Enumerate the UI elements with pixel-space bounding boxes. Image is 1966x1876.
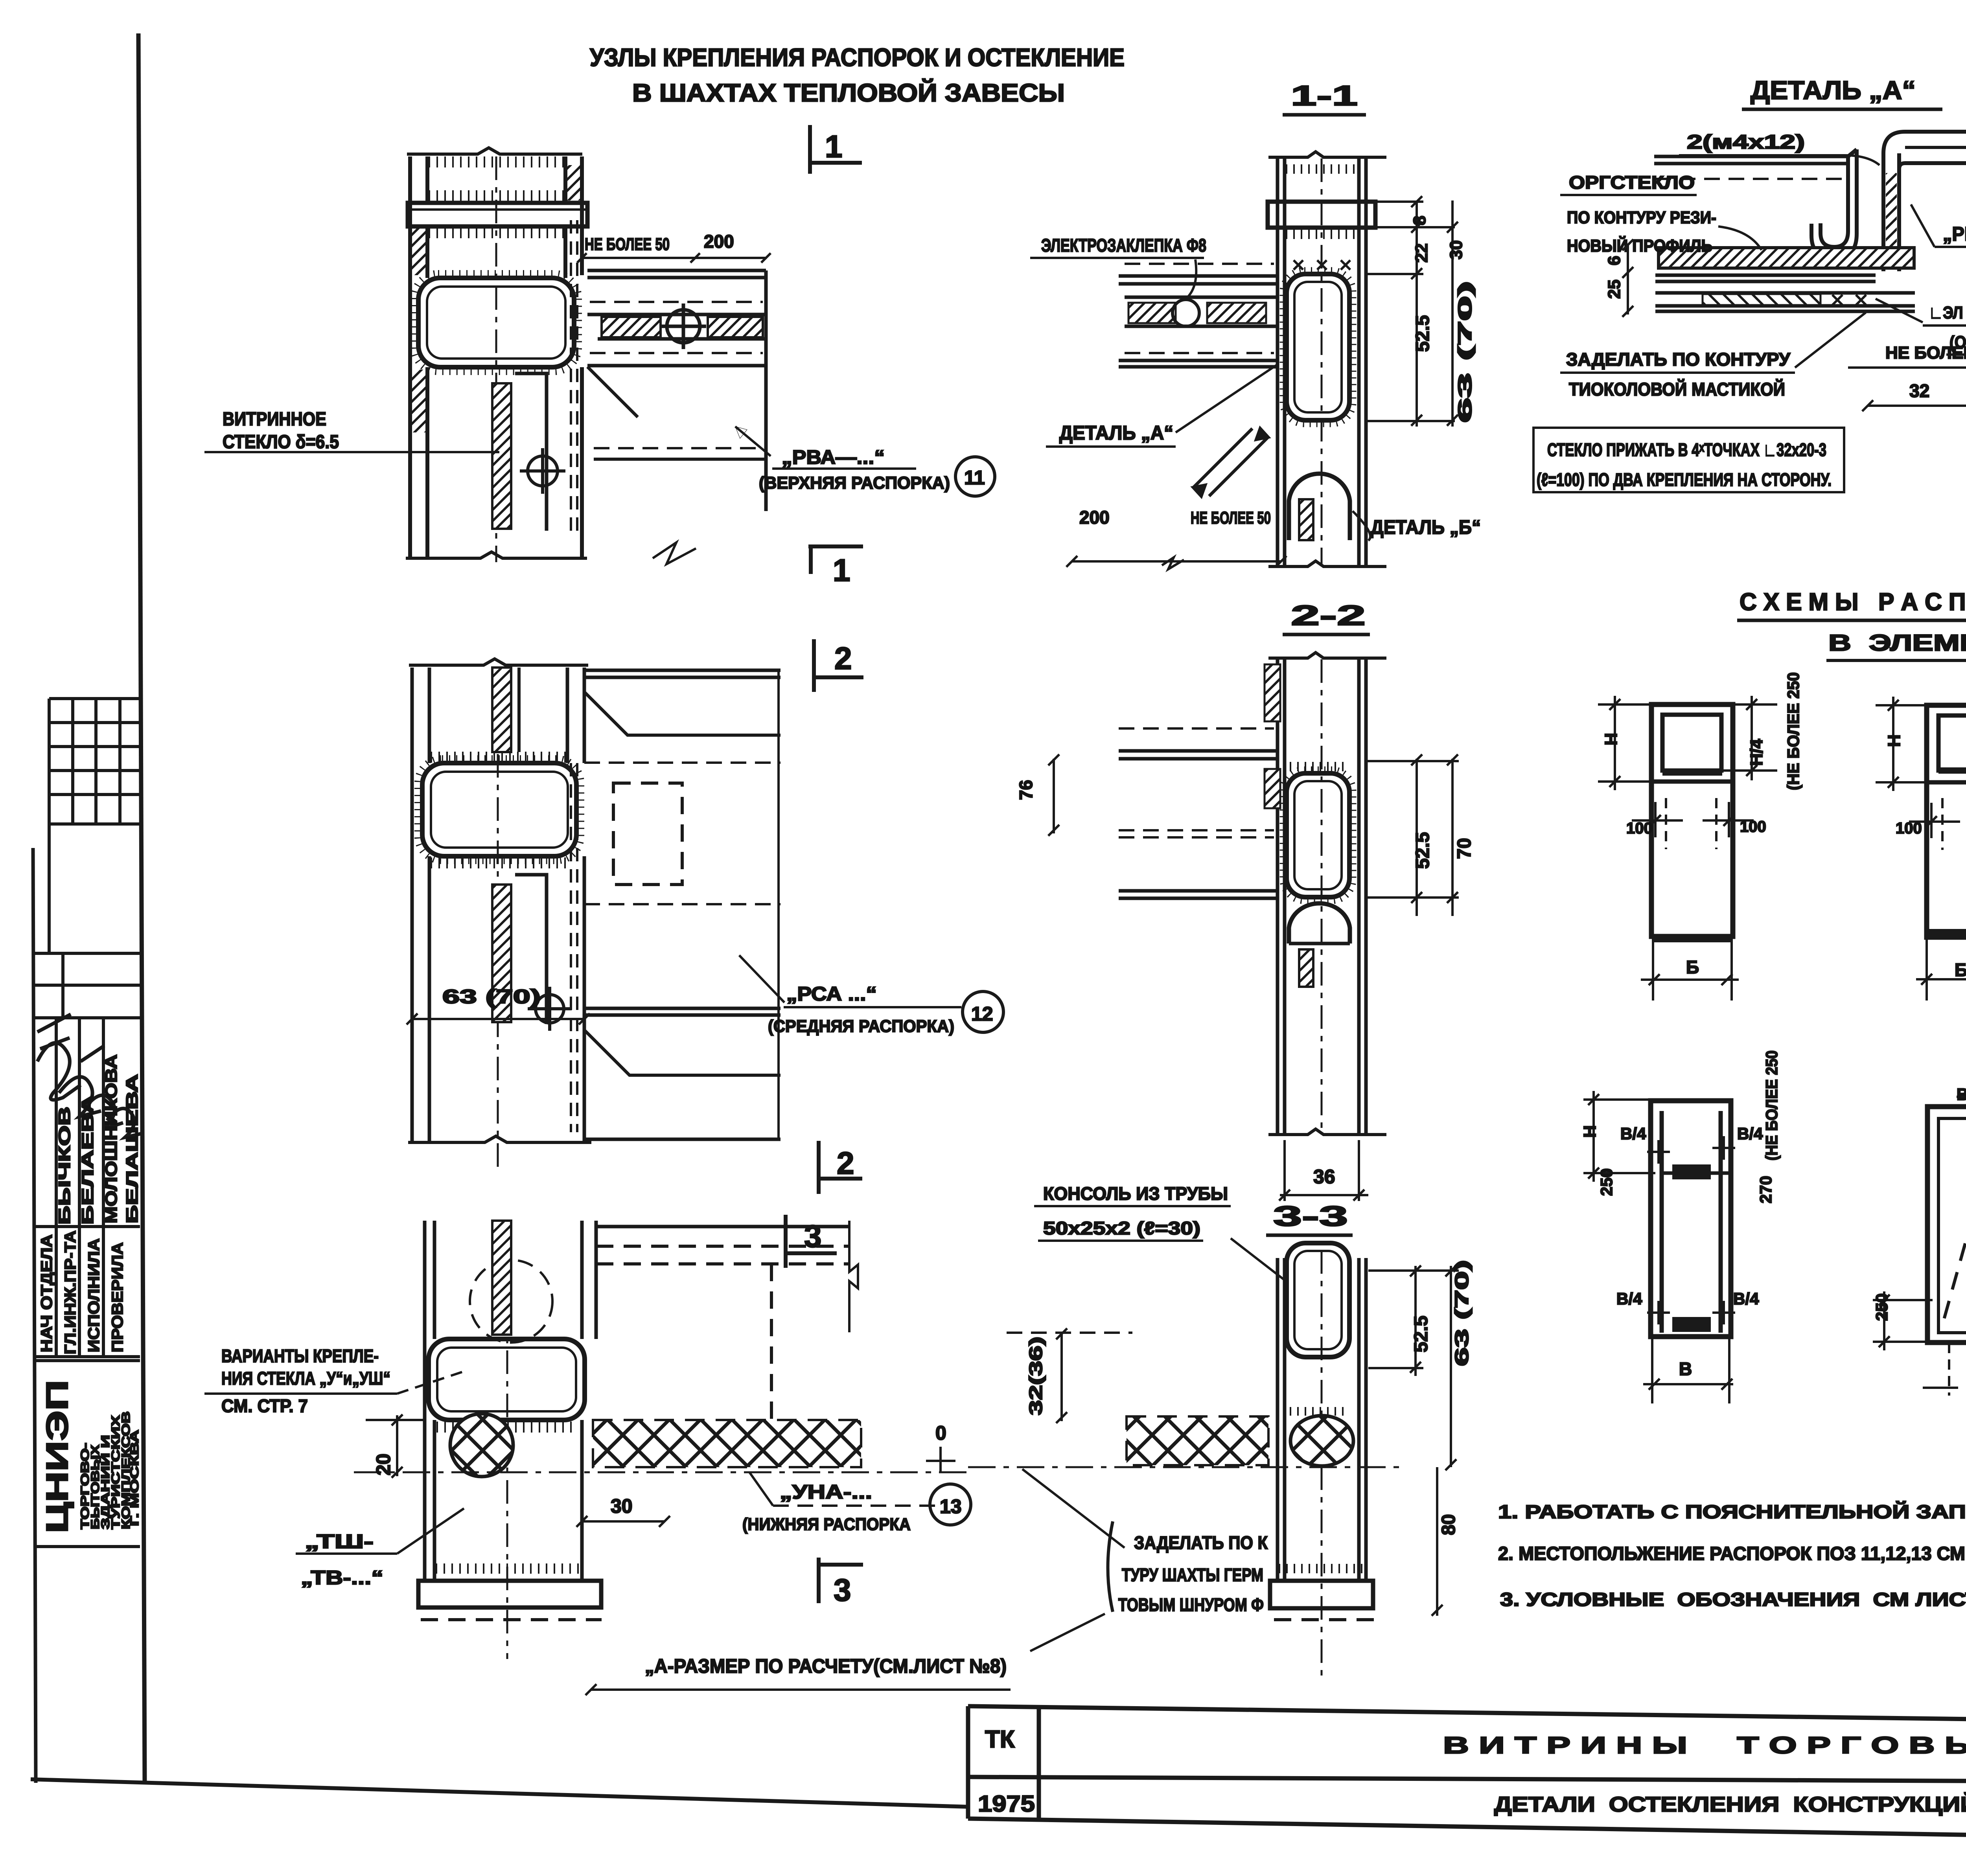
svg-text:(ℓ=100) ПО ДВА КРЕПЛЕНИЯ НА СТ: (ℓ=100) ПО ДВА КРЕПЛЕНИЯ НА СТОРОНУ. — [1537, 469, 1832, 490]
svg-text:2: 2 — [834, 641, 852, 676]
svg-text:Н: Н — [1602, 733, 1621, 745]
svg-text:22: 22 — [1412, 243, 1431, 263]
node 2: position circle 12 — [963, 991, 1003, 1032]
node 2: upper right beam — [584, 670, 781, 763]
node 3: section flag 3 top — [786, 1215, 837, 1268]
svg-text:200: 200 — [1079, 507, 1110, 528]
detail A: angle bracket — [1811, 149, 1857, 258]
svg-text:63 (70): 63 (70) — [1455, 281, 1476, 423]
node 2: glass strip above — [492, 668, 511, 752]
svg-text:52.5: 52.5 — [1411, 1316, 1432, 1352]
svg-text:3: 3 — [834, 1573, 851, 1607]
svg-text:Н: Н — [1885, 734, 1904, 747]
svg-text:100: 100 — [1896, 820, 1922, 837]
svg-text:В/4: В/4 — [1737, 1124, 1763, 1143]
detail A: glass press note box — [1533, 428, 1844, 492]
svg-text:12: 12 — [971, 1003, 993, 1025]
node 3: spacer tube cross-section — [429, 1339, 585, 1420]
node 1: leader to label — [735, 427, 771, 456]
node 1: rivet crosshair — [661, 303, 706, 349]
node 3: position circle 13 — [930, 1484, 971, 1525]
svg-text:В ЭЛЕМЕНТАХ ТАМБУРА.: В ЭЛЕМЕНТАХ ТАМБУРА. — [1828, 630, 1966, 656]
detail A: org-glass sheet — [1655, 275, 1915, 311]
section 2-2: lower small tube — [1289, 903, 1350, 944]
svg-text:(ОТ КРАЯ НЕ БОЛЕЕ 50): (ОТ КРАЯ НЕ БОЛЕЕ 50) — [1949, 333, 1966, 352]
svg-text:3: 3 — [804, 1219, 822, 1254]
node 1 detail: section flag 1 top — [810, 125, 862, 174]
detail A: right vertical wall of spacer end — [1883, 132, 1966, 271]
svg-text:СТЕКЛО ПРИЖАТЬ В 4ˣТОЧКАХ ∟32х: СТЕКЛО ПРИЖАТЬ В 4ˣТОЧКАХ ∟32х20-3 — [1547, 440, 1826, 460]
node 1: column centerline — [495, 156, 497, 562]
node 3: foot flange — [418, 1569, 601, 1607]
section 2-2: spacer tube vertical section — [1287, 773, 1349, 897]
signature squiggles — [37, 1014, 142, 1137]
svg-text:ЗАДЕЛАТЬ ПО К: ЗАДЕЛАТЬ ПО К — [1134, 1532, 1268, 1553]
svg-text:В/4: В/4 — [1620, 1124, 1646, 1143]
svg-text:63 (70): 63 (70) — [1452, 1260, 1473, 1366]
svg-text:СТЕКЛО δ=6.5: СТЕКЛО δ=6.5 — [223, 432, 339, 452]
svg-text:ПРОВЕРИЛА: ПРОВЕРИЛА — [109, 1242, 126, 1352]
svg-text:(НЕ БОЛЕЕ 250: (НЕ БОЛЕЕ 250 — [1762, 1050, 1781, 1161]
node 1: hidden face dashed pair — [571, 220, 577, 531]
section 3-3: column walls — [1278, 1258, 1366, 1581]
svg-text:ЭЛЕКТРОЗАКЛЕПКА Ф8: ЭЛЕКТРОЗАКЛЕПКА Ф8 — [1041, 235, 1206, 256]
node 2: weld comb below tube — [431, 857, 566, 868]
svg-text:„РВА—...“: „РВА—...“ — [1943, 223, 1966, 245]
node 3: insulation cross-hatch strip — [593, 1420, 861, 1467]
svg-text:Г. МОСКВА: Г. МОСКВА — [128, 1430, 141, 1526]
svg-text:БЕЛАЕВА: БЕЛАЕВА — [78, 1095, 97, 1225]
node 1: weld comb under cap — [429, 227, 565, 238]
scheme E dims — [1873, 1086, 1966, 1396]
svg-text:(НЕ БОЛЕЕ 250: (НЕ БОЛЕЕ 250 — [1784, 672, 1802, 790]
node 3: mullion column walls — [425, 1221, 596, 1581]
svg-text:1: 1 — [825, 129, 843, 164]
detail A: glass clamp bar (hatched) — [1659, 248, 1914, 268]
svg-text:52.5: 52.5 — [1412, 315, 1433, 352]
svg-text:В/4: В/4 — [1733, 1289, 1759, 1308]
node 1: top cap flange — [408, 203, 587, 226]
svg-text:50х25х2 (ℓ=30): 50х25х2 (ℓ=30) — [1043, 1218, 1200, 1238]
section 1-1: lower tube half — [1289, 474, 1350, 540]
section 1-1: beam hatched band — [1128, 303, 1176, 323]
stamp block: signatures zone columns — [34, 1018, 140, 1357]
svg-text:КОНСОЛЬ ИЗ ТРУБЫ: КОНСОЛЬ ИЗ ТРУБЫ — [1043, 1183, 1228, 1204]
svg-text:БЕЛАШЕВА: БЕЛАШЕВА — [123, 1074, 141, 1223]
stamp names (rotated) — [55, 1054, 141, 1225]
svg-text:63 (70): 63 (70) — [442, 986, 541, 1008]
node 1: beam hidden dashes — [590, 302, 766, 448]
scheme B frame — [1927, 705, 1966, 937]
node 1: wall hatch fills — [412, 228, 426, 275]
svg-text:НЕ БОЛЕЕ 50: НЕ БОЛЕЕ 50 — [585, 235, 670, 254]
svg-text:32: 32 — [1909, 381, 1929, 401]
node 1: spacer tube cross-section — [418, 278, 574, 367]
section 1-1: cut arrows — [1193, 429, 1268, 496]
svg-text:ЗАДЕЛАТЬ ПО КОНТУРУ: ЗАДЕЛАТЬ ПО КОНТУРУ — [1566, 349, 1791, 370]
svg-text:Н: Н — [1580, 1125, 1600, 1138]
section 1-1: rivet circle — [1173, 300, 1199, 326]
node 2: dashed anchor rectangle — [613, 783, 682, 885]
svg-text:13: 13 — [940, 1495, 962, 1517]
stamp job titles (rotated) — [38, 1230, 126, 1354]
node 3: weld comb below tube — [436, 1422, 578, 1433]
node 3: glass strip above tube — [492, 1221, 511, 1335]
svg-text:ВАРИАНТЫ КРЕПЛЕ-: ВАРИАНТЫ КРЕПЛЕ- — [221, 1346, 379, 1366]
svg-text:НЕ БОЛЕЕ 50: НЕ БОЛЕЕ 50 — [1191, 508, 1271, 528]
svg-text:ЦНИЭП: ЦНИЭП — [40, 1380, 74, 1533]
svg-text:11: 11 — [964, 467, 985, 489]
node 2: section flag 2 top — [814, 639, 863, 692]
svg-text:76: 76 — [1016, 780, 1036, 800]
svg-text:НОВЫЙ ПРОФИЛЬ: НОВЫЙ ПРОФИЛЬ — [1567, 235, 1712, 256]
svg-text:ТОВЫМ ШНУРОМ Ф: ТОВЫМ ШНУРОМ Ф — [1118, 1595, 1264, 1615]
stamp logo block frame — [34, 1361, 140, 1547]
svg-text:В/4: В/4 — [1957, 1085, 1966, 1104]
svg-text:Н/4: Н/4 — [1747, 739, 1766, 766]
node 1: crosshair screw — [520, 448, 565, 494]
svg-text:ВИТРИННОЕ: ВИТРИННОЕ — [223, 409, 326, 430]
svg-text:„РСА ...“: „РСА ...“ — [786, 983, 877, 1005]
node 2: leader — [739, 955, 784, 1002]
svg-text:30: 30 — [1447, 240, 1466, 259]
svg-text:20: 20 — [372, 1453, 394, 1475]
node 2: column centerline — [497, 668, 499, 1172]
svg-text:1975: 1975 — [978, 1791, 1035, 1817]
node 1 detail: section flag 1 bottom — [808, 545, 863, 574]
svg-text:2(м4х12): 2(м4х12) — [1687, 131, 1805, 153]
section 3-3: console tube — [1287, 1243, 1349, 1357]
title block frame — [968, 1706, 1966, 1847]
svg-text:200: 200 — [704, 231, 734, 252]
node 3: rubber cord circle — [450, 1414, 513, 1477]
scheme E frame — [1927, 1107, 1966, 1343]
svg-text:ПО КОНТУРУ РЕЗИ-: ПО КОНТУРУ РЕЗИ- — [1567, 208, 1716, 227]
svg-text:В ШАХТАХ ТЕПЛОВОЙ ЗАВЕСЫ: В ШАХТАХ ТЕПЛОВОЙ ЗАВЕСЫ — [632, 78, 1065, 107]
svg-text:ОРГСТЕКЛО: ОРГСТЕКЛО — [1569, 172, 1695, 193]
svg-text:1: 1 — [833, 553, 850, 588]
svg-text:ДЕТАЛИ ОСТЕКЛЕНИЯ КОНСТРУКЦИ: ДЕТАЛИ ОСТЕКЛЕНИЯ КОНСТРУКЦИЙ ТАМБУРА. — [1494, 1792, 1966, 1816]
svg-text:2. МЕСТОПОЛЬЖЕНИЕ РАСПОРОК ПОЗ: 2. МЕСТОПОЛЬЖЕНИЕ РАСПОРОК ПОЗ 11,12,13 … — [1498, 1543, 1966, 1564]
section 3-3: rubber cord in column — [1290, 1416, 1353, 1466]
svg-text:„А-РАЗМЕР ПО РАСЧЕТУ(СМ.ЛИСТ №: „А-РАЗМЕР ПО РАСЧЕТУ(СМ.ЛИСТ №8) — [645, 1655, 1007, 1677]
section 1-1: spacer tube vertical section — [1287, 274, 1349, 420]
section 3-3: right dims — [1368, 1265, 1459, 1616]
svg-text:НИЯ СТЕКЛА „У“и„УШ“: НИЯ СТЕКЛА „У“и„УШ“ — [221, 1368, 390, 1389]
svg-text:УЗЛЫ КРЕПЛЕНИЯ РАСПОРОК И ОСТЕ: УЗЛЫ КРЕПЛЕНИЯ РАСПОРОК И ОСТЕКЛЕНИЕ — [590, 43, 1125, 72]
section 3-3: insulation strip left — [1127, 1416, 1268, 1465]
institute address lines (rotated) — [79, 1411, 141, 1529]
node 1: beam hatched inserts — [602, 317, 661, 337]
svg-text:25: 25 — [1605, 280, 1624, 299]
svg-text:С Х Е М Ы Р А С П О Л О Ж Е: С Х Е М Ы Р А С П О Л О Ж Е Н И Я П О Д … — [1740, 589, 1966, 616]
svg-text:70: 70 — [1454, 838, 1475, 859]
svg-text:СМ. СТР. 7: СМ. СТР. 7 — [221, 1396, 308, 1416]
svg-text:„РВА—...“: „РВА—...“ — [782, 446, 885, 468]
svg-text:36: 36 — [1313, 1166, 1335, 1188]
section 2-2: glass bar below — [1299, 949, 1313, 987]
node 1: weld comb top — [429, 156, 565, 167]
svg-text:В/4: В/4 — [1616, 1289, 1642, 1308]
node 3: dashed inspection circle — [470, 1260, 552, 1343]
node 2: section flag 2 bottom — [819, 1141, 862, 1194]
scheme B dims — [1876, 697, 1966, 1001]
sheet bottom edge line — [31, 1779, 970, 1807]
section 2-2: weld comb above tube — [1290, 762, 1349, 771]
section 2-2: glass wedge above — [1265, 664, 1280, 721]
node 2: glass strip below — [492, 885, 511, 1022]
node 3: solid shaft lines — [596, 1221, 858, 1332]
svg-text:ТИОКОЛОВОЙ МАСТИКОЙ: ТИОКОЛОВОЙ МАСТИКОЙ — [1569, 379, 1785, 399]
node 3: dashed corner of shaft — [596, 1246, 849, 1420]
svg-text:ДЕТАЛЬ „А“: ДЕТАЛЬ „А“ — [1751, 75, 1916, 105]
svg-text:„ТШ-: „ТШ- — [305, 1530, 374, 1552]
svg-text:80: 80 — [1438, 1514, 1459, 1535]
node 2: hidden face dashed pair — [571, 763, 577, 1132]
section 2-2: left beam lines — [1119, 751, 1278, 898]
svg-text:Б: Б — [1955, 960, 1966, 980]
node 3: centerline datum — [354, 1471, 971, 1473]
node 2: lower right beam — [584, 670, 781, 1140]
svg-text:2: 2 — [837, 1146, 854, 1181]
node 2: crosshair screw — [528, 987, 572, 1031]
section 1-1: weld x marks above tube — [1294, 260, 1350, 270]
svg-text:8: 8 — [1410, 216, 1429, 225]
section 1-1: glass bar in lower tube — [1299, 499, 1313, 540]
svg-text:Б: Б — [1686, 957, 1699, 977]
svg-text:В И Т Р И Н Ы Т О Р Г О В: В И Т Р И Н Ы Т О Р Г О В Ы Х З Д А Н И … — [1443, 1732, 1966, 1758]
svg-text:100: 100 — [1626, 820, 1653, 837]
svg-text:ИСПОЛНИЛА: ИСПОЛНИЛА — [85, 1238, 103, 1352]
stamp block: date/signature table — [34, 953, 140, 1018]
svg-text:52.5: 52.5 — [1412, 832, 1433, 869]
svg-text:ТК: ТК — [985, 1726, 1015, 1753]
svg-text:БЫЧКОВ: БЫЧКОВ — [55, 1107, 74, 1225]
svg-text:6: 6 — [1605, 256, 1624, 265]
stamp block: approvals table — [49, 699, 140, 953]
scheme A frame — [1651, 704, 1733, 939]
svg-text:250: 250 — [1597, 1168, 1616, 1196]
section 1-1: top cap — [1268, 202, 1375, 228]
svg-text:0: 0 — [935, 1422, 946, 1444]
node 3: column centerline — [506, 1221, 508, 1659]
node 1: glass strip below tube — [492, 383, 511, 529]
section 1-1: column walls — [1268, 152, 1386, 566]
section 3-3: datum centerline — [968, 1466, 1406, 1468]
svg-text:32(36): 32(36) — [1025, 1337, 1046, 1415]
section 1-1: right dim lines — [1368, 196, 1458, 427]
section 1-1: column centerline — [1321, 158, 1323, 566]
svg-text:100: 100 — [1740, 818, 1766, 835]
svg-text:30: 30 — [611, 1495, 633, 1517]
svg-text:(НИЖНЯЯ РАСПОРКА: (НИЖНЯЯ РАСПОРКА — [742, 1515, 911, 1534]
svg-text:270: 270 — [1756, 1176, 1775, 1203]
svg-text:2-2: 2-2 — [1291, 600, 1366, 631]
svg-text:В: В — [1679, 1359, 1692, 1379]
svg-text:1. РАБОТАТЬ С ПОЯСНИТЕЛЬНОЙ ЗА: 1. РАБОТАТЬ С ПОЯСНИТЕЛЬНОЙ ЗАПИСКОЙ. — [1498, 1501, 1966, 1523]
scheme D frame — [1651, 1101, 1731, 1337]
node 2: weld comb above tube — [431, 752, 566, 763]
node 3: section flag 3 bottom — [819, 1558, 863, 1603]
node 2: mullion column walls — [408, 659, 591, 1142]
svg-text:„УНА-...: „УНА-... — [780, 1481, 872, 1503]
svg-text:3-3: 3-3 — [1273, 1201, 1348, 1232]
svg-text:НАЧ ОТДЕЛА: НАЧ ОТДЕЛА — [38, 1234, 55, 1352]
node 1: upper spacer beam (PBA) — [587, 270, 766, 564]
svg-text:3. УСЛОВНЫЕ ОБОЗНАЧЕНИЯ СМ Л: 3. УСЛОВНЫЕ ОБОЗНАЧЕНИЯ СМ ЛИСТ КМ-0 — [1500, 1589, 1966, 1610]
svg-text:МОЛОШНИКОВА: МОЛОШНИКОВА — [102, 1054, 120, 1223]
section 2-2: right dim lines — [1368, 754, 1459, 916]
detail A: rivet x-marks — [1832, 295, 1866, 305]
scheme D dims — [1583, 1091, 1735, 1403]
svg-text:ТУРУ ШАХТЫ ГЕРМ: ТУРУ ШАХТЫ ГЕРМ — [1122, 1565, 1263, 1585]
svg-text:∟ЭЛ ЗАКЛЕПКИ Ф6 ШАГ-200: ∟ЭЛ ЗАКЛЕПКИ Ф6 ШАГ-200 — [1929, 303, 1966, 322]
svg-text:ГЛ.ИНЖ.ПР-ТА: ГЛ.ИНЖ.ПР-ТА — [62, 1230, 79, 1354]
node 1: glass holder profile — [515, 373, 547, 531]
node 2: spacer tube cross-section — [422, 763, 576, 856]
section 3-3: weld comb above circle — [1290, 1407, 1349, 1416]
node 1: mullion column walls — [406, 148, 587, 558]
detail A: top horizontal plate — [1654, 156, 1848, 179]
section 3-3: foot flange — [1270, 1569, 1373, 1608]
node 3: dashed below foot — [421, 1618, 602, 1621]
svg-text:(ВЕРХНЯЯ РАСПОРКА): (ВЕРХНЯЯ РАСПОРКА) — [759, 473, 950, 493]
svg-text:ДЕТАЛЬ „Б“: ДЕТАЛЬ „Б“ — [1371, 516, 1481, 538]
sheet outer-left stamp edge line — [33, 848, 36, 1783]
svg-text:1-1: 1-1 — [1291, 80, 1358, 112]
scheme A dims — [1598, 696, 1777, 1001]
svg-text:ДЕТАЛЬ „А“: ДЕТАЛЬ „А“ — [1059, 422, 1173, 444]
section 1-1: left beam lines — [1119, 276, 1278, 367]
node 1: position circle 11 — [955, 457, 995, 496]
sheet left frame line — [138, 33, 145, 1783]
svg-text:„ТВ-...“: „ТВ-...“ — [301, 1567, 383, 1589]
svg-text:(СРЕДНЯЯ РАСПОРКА): (СРЕДНЯЯ РАСПОРКА) — [768, 1017, 954, 1036]
node 1: top dim line — [577, 253, 771, 263]
svg-text:250: 250 — [1872, 1293, 1891, 1321]
section 2-2: column walls — [1268, 653, 1386, 1135]
